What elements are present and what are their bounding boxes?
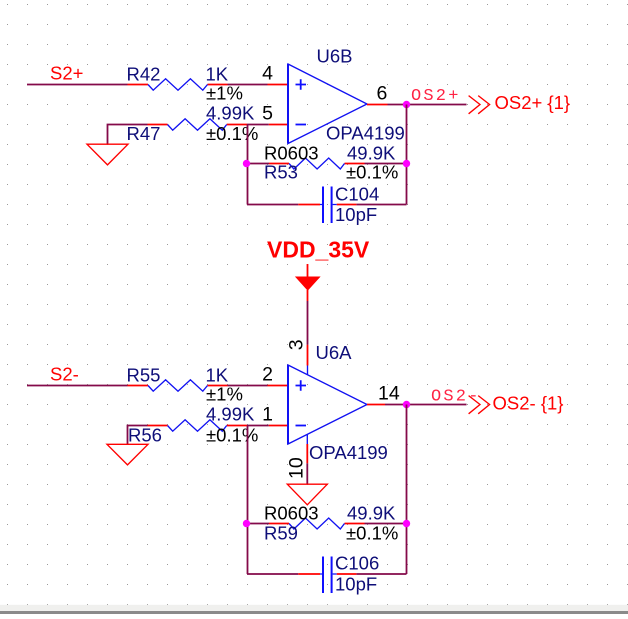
junction dot right (feedback R53) xyxy=(403,160,410,167)
off-page connector OS2+ xyxy=(469,96,490,114)
svg-text:S2-: S2- xyxy=(50,364,79,385)
svg-text:±1%: ±1% xyxy=(206,82,243,103)
junction dot left (feedback R53) xyxy=(243,160,250,167)
svg-text:C106: C106 xyxy=(335,553,379,574)
op-amp U6A xyxy=(288,365,367,444)
svg-text:S2+: S2+ xyxy=(50,63,83,84)
svg-text:OPA4199: OPA4199 xyxy=(326,123,405,144)
svg-text:10: 10 xyxy=(286,457,308,479)
svg-text:R47: R47 xyxy=(127,123,161,144)
svg-text:10pF: 10pF xyxy=(335,574,377,595)
svg-text:±0.1%: ±0.1% xyxy=(346,161,398,182)
wire vertical branch from pin 1 net xyxy=(247,426,249,575)
svg-text:OS2+: OS2+ xyxy=(411,87,461,106)
svg-text:±0.1%: ±0.1% xyxy=(206,424,258,445)
svg-text:R53: R53 xyxy=(264,161,298,182)
pin stubs R56 pins and U6A pin 1 xyxy=(148,425,289,427)
svg-text:OS2- {1}: OS2- {1} xyxy=(493,392,564,413)
op-amp U6B xyxy=(288,64,367,144)
svg-text:VDD_35V: VDD_35V xyxy=(267,237,370,263)
svg-text:R0603: R0603 xyxy=(264,503,319,524)
wire vertical from OS2- node to feedback xyxy=(406,405,408,575)
svg-text:6: 6 xyxy=(377,83,388,105)
svg-text:2: 2 xyxy=(262,364,273,386)
svg-text:R59: R59 xyxy=(264,523,298,544)
pin stubs R55 pins and U6A pin 2 xyxy=(128,385,289,387)
output pin 6 wire xyxy=(367,104,388,106)
resistor R47 xyxy=(168,119,227,130)
svg-text:±0.1%: ±0.1% xyxy=(346,523,398,544)
off-page connector OS2- xyxy=(469,396,490,414)
resistor R53 xyxy=(289,158,345,169)
svg-text:R56: R56 xyxy=(128,424,162,445)
scrollbar xyxy=(0,605,628,611)
svg-text:OS2+ {1}: OS2+ {1} xyxy=(495,92,571,113)
wire U6A pin 10 to ground xyxy=(306,434,308,444)
svg-text:U6A: U6A xyxy=(316,342,353,363)
junction dot left (feedback R59) xyxy=(243,520,250,527)
svg-text:U6B: U6B xyxy=(317,46,353,67)
capacitor C104 xyxy=(320,204,337,206)
junction dot right (feedback R59) xyxy=(403,520,410,527)
svg-text:OS2-: OS2- xyxy=(431,388,481,407)
svg-text:R55: R55 xyxy=(127,365,161,386)
ground symbol at R56 xyxy=(107,444,148,465)
svg-text:4: 4 xyxy=(262,63,273,85)
ground symbol at U6A pin 10 xyxy=(287,484,327,505)
svg-text:49.9K: 49.9K xyxy=(347,503,396,524)
svg-text:14: 14 xyxy=(378,383,400,405)
svg-text:1: 1 xyxy=(262,404,273,426)
feedback row R59 xyxy=(247,523,407,525)
resistor R42 xyxy=(148,79,208,90)
svg-text:4.99K: 4.99K xyxy=(206,102,255,123)
wire capacitor C106 row xyxy=(247,573,407,575)
resistor R55 xyxy=(148,380,208,391)
svg-text:R42: R42 xyxy=(127,64,161,85)
svg-text:OPA4199: OPA4199 xyxy=(309,442,388,463)
pin stubs R42 pins and U6B pin 4 xyxy=(128,84,289,86)
wire ground jog to R56 and pin 1 segment xyxy=(128,426,269,445)
svg-text:C104: C104 xyxy=(335,184,379,205)
resistor R59 xyxy=(289,518,345,529)
wire VDD to U6A pin 3 xyxy=(307,301,309,345)
svg-text:±0.1%: ±0.1% xyxy=(206,123,258,144)
svg-text:±1%: ±1% xyxy=(206,383,243,404)
wire S2+ net horizontal xyxy=(27,84,268,86)
wire capacitor C104 row xyxy=(247,204,407,206)
capacitor C106 xyxy=(320,573,337,575)
svg-text:49.9K: 49.9K xyxy=(347,143,396,164)
resistor R56 xyxy=(168,420,227,431)
output pin 14 wire xyxy=(367,404,385,406)
wire vertical branch from pin 5 net xyxy=(247,125,249,205)
wire vertical from OS2+ node to feedback xyxy=(406,105,408,205)
ground symbol at R47 xyxy=(87,144,128,165)
junction node OS2+ output xyxy=(403,101,410,108)
svg-text:R0603: R0603 xyxy=(264,143,319,164)
feedback row R53 xyxy=(247,163,407,165)
svg-text:3: 3 xyxy=(286,339,308,350)
junction node OS2- output xyxy=(403,401,410,408)
svg-text:5: 5 xyxy=(262,103,273,125)
wire ground jog to R47 and pin 5 segment xyxy=(108,125,269,145)
svg-text:10pF: 10pF xyxy=(335,204,377,225)
pin stubs R47 pins and U6B pin 5 xyxy=(148,124,289,126)
wire S2- net horizontal xyxy=(27,385,268,387)
svg-text:4.99K: 4.99K xyxy=(206,403,255,424)
